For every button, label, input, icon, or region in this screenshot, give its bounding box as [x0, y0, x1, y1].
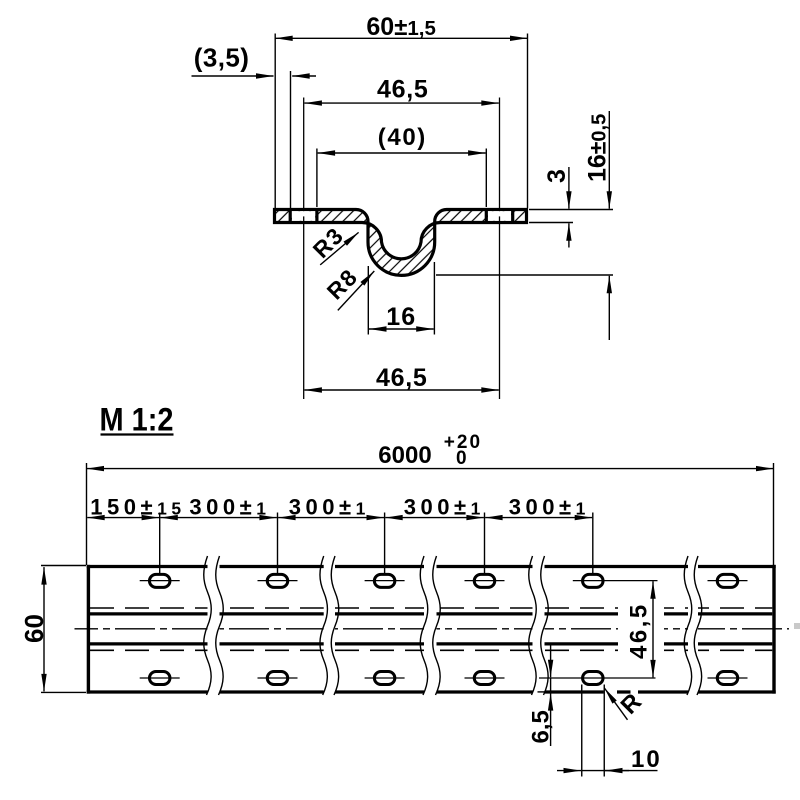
- hidden line lower: [90, 649, 772, 651]
- break gap 5: [688, 557, 698, 695]
- svg-text:300±1: 300±1: [189, 494, 270, 519]
- channel edge line lower: [90, 642, 772, 645]
- left hole centerline / extension for 46,5 dims: [303, 98, 305, 400]
- dimension 16 (slot width): [368, 262, 434, 335]
- svg-text:16±0,5: 16±0,5: [584, 114, 612, 182]
- radius leader R8: [322, 263, 375, 310]
- break lines 1: [204, 556, 212, 695]
- svg-text:300±1: 300±1: [509, 494, 590, 519]
- right hole edge lines: [485, 208, 488, 224]
- dimension 46,5 top: [304, 76, 498, 104]
- dimension 300±1 (1): [160, 494, 277, 519]
- svg-text:(3,5): (3,5): [194, 43, 249, 73]
- centerline gaps in holes: [303, 211, 305, 216]
- slot holes bottom row: [149, 672, 737, 685]
- dimension 16±0,5 (depth): [436, 111, 613, 340]
- svg-text:10: 10: [631, 746, 662, 773]
- hole centre lines bottom row: [140, 677, 748, 679]
- hole pitch extension lines: [160, 513, 593, 574]
- svg-text:46,5: 46,5: [377, 76, 428, 104]
- radius leader R3: [308, 222, 359, 265]
- dimension 60 (rail width): [19, 566, 86, 693]
- svg-text:M 1:2: M 1:2: [100, 402, 174, 438]
- break lines 2: [320, 556, 328, 695]
- dimension 300±1 (2): [278, 494, 384, 519]
- rail right edge: [772, 565, 775, 694]
- svg-text:60±1,5: 60±1,5: [366, 13, 435, 41]
- svg-text:16: 16: [386, 303, 416, 331]
- break gap 1: [208, 557, 220, 695]
- break gap 4: [533, 557, 545, 695]
- dimension 10 (hole length): [557, 685, 662, 777]
- dimension 300±1 (3): [385, 494, 485, 519]
- dimension (3,5): [192, 43, 317, 209]
- right slot hole (section) white gap: [488, 211, 511, 221]
- right hole centerline / extension for 46,5 dims: [499, 98, 501, 400]
- svg-text:300±1: 300±1: [289, 494, 370, 519]
- svg-text:300±1: 300±1: [404, 494, 485, 519]
- scale note M 1:2: [100, 402, 174, 438]
- svg-text:46,5: 46,5: [376, 364, 427, 392]
- svg-text:6000: 6000: [378, 442, 431, 469]
- left hole edge lines: [289, 208, 292, 224]
- dimension 46,5 bottom: [304, 364, 498, 392]
- dimension 60±1,5: [275, 13, 527, 208]
- break lines 4: [529, 556, 537, 695]
- break lines 3: [420, 556, 428, 695]
- radius leader R (hole corner): [604, 688, 647, 720]
- hidden line upper: [90, 607, 772, 609]
- rail top edge: [87, 565, 776, 568]
- dimension 150±15: [87, 494, 185, 519]
- slot holes top row: [149, 574, 737, 587]
- svg-text:46,5: 46,5: [626, 602, 653, 659]
- dimension 3 (thickness): [529, 167, 613, 248]
- svg-text:60: 60: [19, 614, 49, 643]
- channel edge line upper: [90, 612, 772, 615]
- dimension 6,5 (hole edge distance): [528, 645, 555, 746]
- svg-text:0: 0: [456, 448, 467, 469]
- dimension 6000 +20/0: [87, 432, 774, 565]
- rail centre line: [75, 628, 790, 630]
- dimension 46,5 (hole row spacing): [618, 581, 664, 677]
- break lines 5: [684, 556, 692, 695]
- profile cross-section (hat channel, hatched): [275, 210, 527, 276]
- scan artifact: [794, 623, 800, 629]
- rail left edge: [87, 565, 90, 694]
- svg-text:3: 3: [543, 169, 571, 183]
- rail bottom edge: [87, 690, 776, 693]
- svg-text:6,5: 6,5: [528, 710, 555, 743]
- hole centre lines top row: [140, 580, 748, 582]
- svg-text:(40): (40): [378, 124, 427, 151]
- break gap 3: [424, 557, 437, 695]
- dimension 300±1 (4): [485, 494, 592, 519]
- svg-text:150±15: 150±15: [90, 494, 185, 519]
- break gap 2: [324, 557, 335, 695]
- dimension (40): [317, 124, 486, 207]
- left slot hole (section) white gap: [292, 211, 315, 221]
